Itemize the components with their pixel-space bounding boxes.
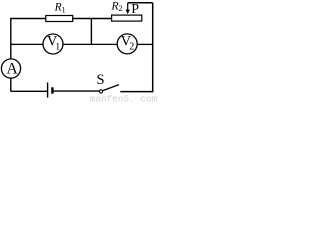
svg-text:A: A (6, 61, 18, 78)
switch blade (103, 85, 119, 91)
svg-text:2: 2 (129, 41, 134, 52)
wire voltmeter row middle segment (63, 43, 117, 45)
ammeter A (1, 59, 20, 78)
svg-text:R2: R2 (111, 0, 123, 13)
svg-text:R1: R1 (54, 2, 66, 15)
switch S pivot (99, 90, 102, 93)
wire top-left horizontal (battery+ to R1 left) (10, 18, 46, 20)
wire left vertical upper (10, 19, 12, 59)
wire right vertical (152, 3, 154, 45)
svg-text:P: P (131, 2, 139, 17)
wire top-middle horizontal (R1 right to R2 left) (73, 18, 112, 20)
voltmeter V2 (117, 34, 137, 54)
wire voltmeter row right segment (137, 43, 153, 45)
wire bottom-left segment (11, 90, 47, 92)
voltmeter V1 (43, 34, 63, 54)
battery positive plate (long) (47, 83, 49, 98)
node junction between R1 and R2 (middle vertical wire) (90, 19, 92, 45)
wire battery to switch (54, 90, 100, 92)
resistor R2 (rheostat track) (112, 15, 142, 21)
svg-text:manfen5. com: manfen5. com (90, 93, 158, 102)
wire voltmeter row left segment (11, 43, 43, 45)
wire slider to top-right corner (128, 2, 153, 4)
wire switch to bottom-right corner (120, 91, 153, 93)
svg-text:1: 1 (55, 42, 60, 52)
battery negative plate (short thick) (51, 87, 53, 93)
wire left vertical lower (10, 78, 12, 91)
resistor R1 (46, 16, 73, 22)
svg-text:S: S (97, 72, 105, 88)
rheostat slider arrow (127, 3, 129, 10)
